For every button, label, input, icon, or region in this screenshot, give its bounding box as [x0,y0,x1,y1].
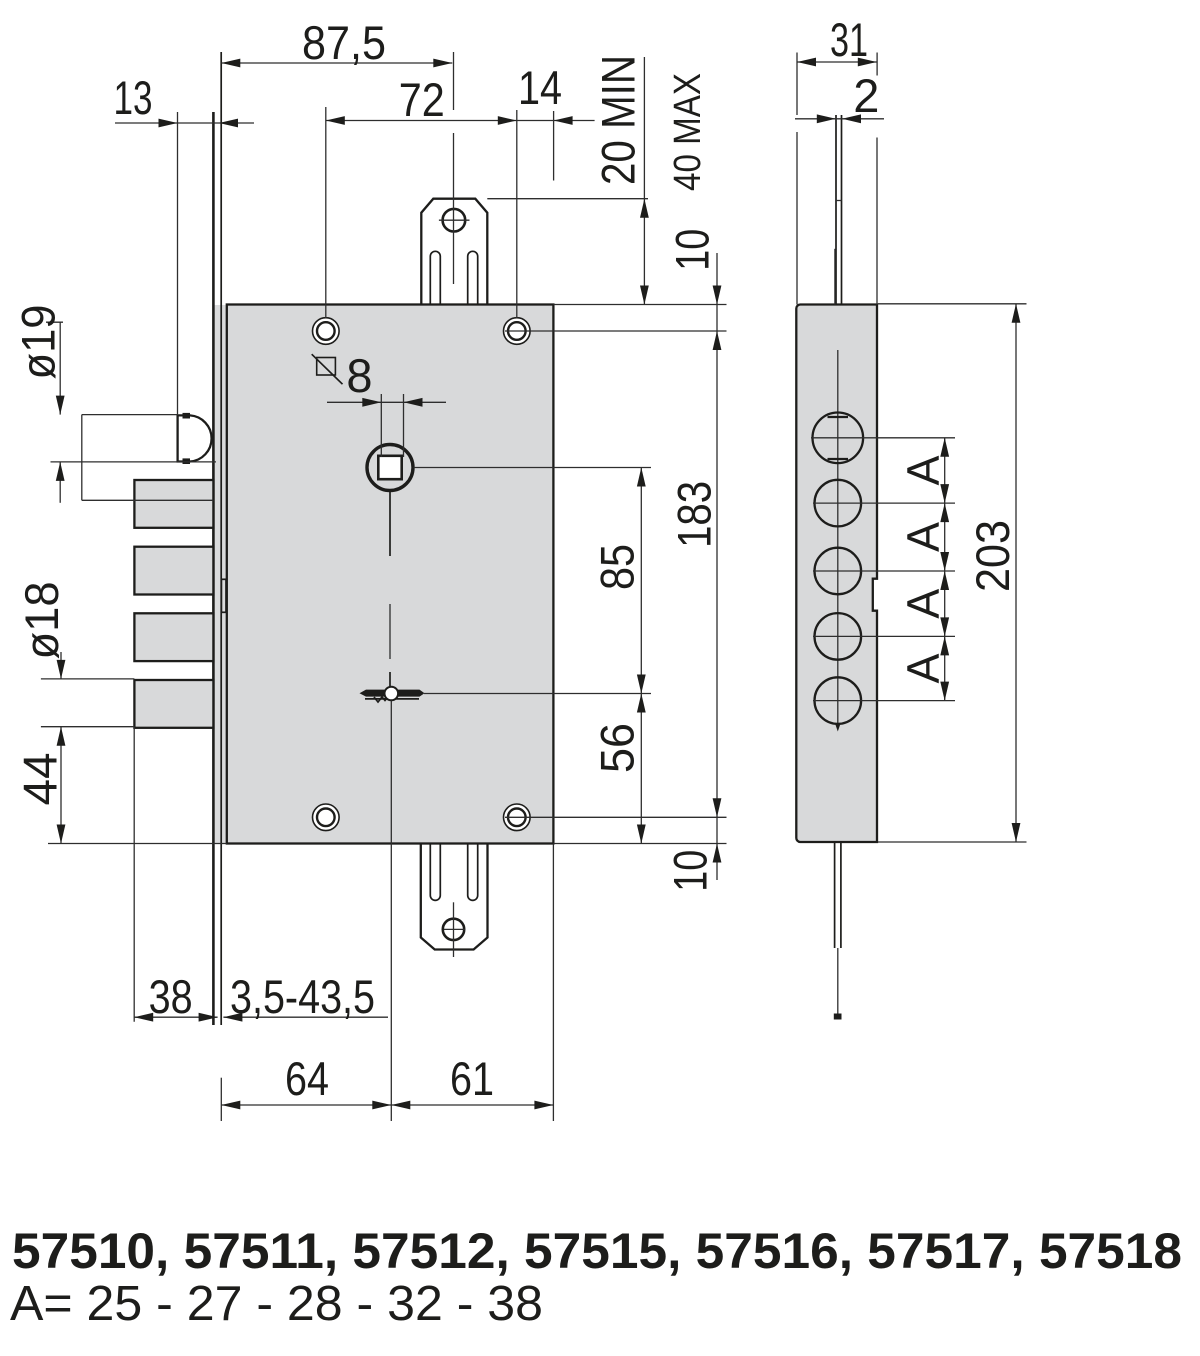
svg-text:64: 64 [285,1052,329,1105]
svg-text:56: 56 [591,723,644,773]
faceplate fixing notch [221,579,226,612]
case centre line [835,350,841,732]
lock body (front view) [227,305,554,844]
door edge reference line [876,138,878,305]
top tab centre line [453,52,455,284]
svg-text:203: 203 [966,520,1019,592]
dimension chain A [898,438,950,701]
dimension 87,5 [221,16,452,69]
svg-text:85: 85 [591,544,644,590]
svg-text:61: 61 [450,1052,494,1105]
latch guide outline [82,415,214,501]
top-left fixing hole [313,318,340,345]
deadbolt 4 [134,680,213,728]
bottom mounting tab [421,843,488,950]
vertical locking rod (bottom) [834,843,842,1020]
svg-text:31: 31 [830,13,868,66]
svg-text:20 MIN: 20 MIN [592,55,645,185]
svg-text:72: 72 [399,73,445,126]
bottom tab slot left [430,843,440,900]
svg-text:13: 13 [114,71,153,124]
deadbolt 2 [134,547,213,595]
dimension ø19 [12,305,216,503]
dimension 85 and 56 [414,468,652,844]
dimension column 10 / 183 / 10 [505,229,727,892]
deadbolt section 2 (side) [815,548,862,595]
svg-text:A= 25 - 27 - 28 - 32 - 38: A= 25 - 27 - 28 - 32 - 38 [10,1277,543,1331]
deadbolt section 1 (side) [815,480,862,527]
centre line follower to cylinder [389,491,391,688]
svg-text:ø18: ø18 [15,582,68,660]
top mounting tab [421,199,487,305]
bottom tab screw hole [443,902,466,957]
svg-text:44: 44 [14,753,67,806]
A values text [10,1277,543,1331]
svg-text:10: 10 [665,229,718,271]
dimension 8 [327,349,446,457]
dimension 2 [795,69,884,123]
top tab slot left [430,251,440,305]
deadbolt 3 [134,613,213,661]
svg-text:2: 2 [853,69,879,122]
svg-text:3,5-43,5: 3,5-43,5 [230,970,375,1023]
dimension 13 [114,71,255,415]
bottom tab slot right [468,843,478,900]
deadbolt section 3 (side) [815,613,862,660]
svg-text:40 MAX: 40 MAX [667,73,709,191]
product codes text [12,1223,1182,1279]
top-right fixing hole [504,318,531,345]
spindle follower (square hub) [367,445,413,491]
bottom-right fixing hole [504,804,531,831]
svg-text:38: 38 [149,970,193,1023]
svg-text:183: 183 [667,481,720,548]
svg-text:57510, 57511, 57512, 57515, 57: 57510, 57511, 57512, 57515, 57516, 57517… [12,1223,1182,1279]
dimension 31 [797,13,877,305]
vertical locking rod (top) [835,115,842,305]
svg-text:A: A [898,522,949,552]
svg-text:A: A [898,589,949,619]
lock case (side view) [796,305,877,843]
deadbolt section 4 (side) [815,677,862,724]
dimension 203 [878,304,1027,842]
svg-text:A: A [898,653,949,683]
latch bolt section (side) [813,413,864,464]
latch bolt [178,413,212,464]
dimension 64 and 61 [221,844,553,1122]
circle centre lines [811,438,955,701]
svg-text:A: A [898,455,949,485]
dimension 72 and 14 [326,61,595,318]
faceplate strip [213,52,226,1025]
svg-text:ø19: ø19 [12,305,65,380]
square spindle symbol [312,354,343,384]
centre line below cylinder [390,701,392,1122]
top tab screw hole [439,209,470,232]
cylinder cam [360,687,425,702]
dimension ø18 and 44 [14,582,227,844]
deadbolt 1 [134,480,213,528]
top tab slot right [468,251,478,305]
svg-text:8: 8 [346,349,372,402]
dimension 38 and 3,5-43,5 [134,727,388,1023]
dimension 20 MIN / 40 MAX [487,55,709,305]
svg-text:10: 10 [664,850,717,892]
bottom-left fixing hole [313,804,340,831]
svg-text:14: 14 [518,61,562,114]
svg-text:87,5: 87,5 [302,16,386,69]
